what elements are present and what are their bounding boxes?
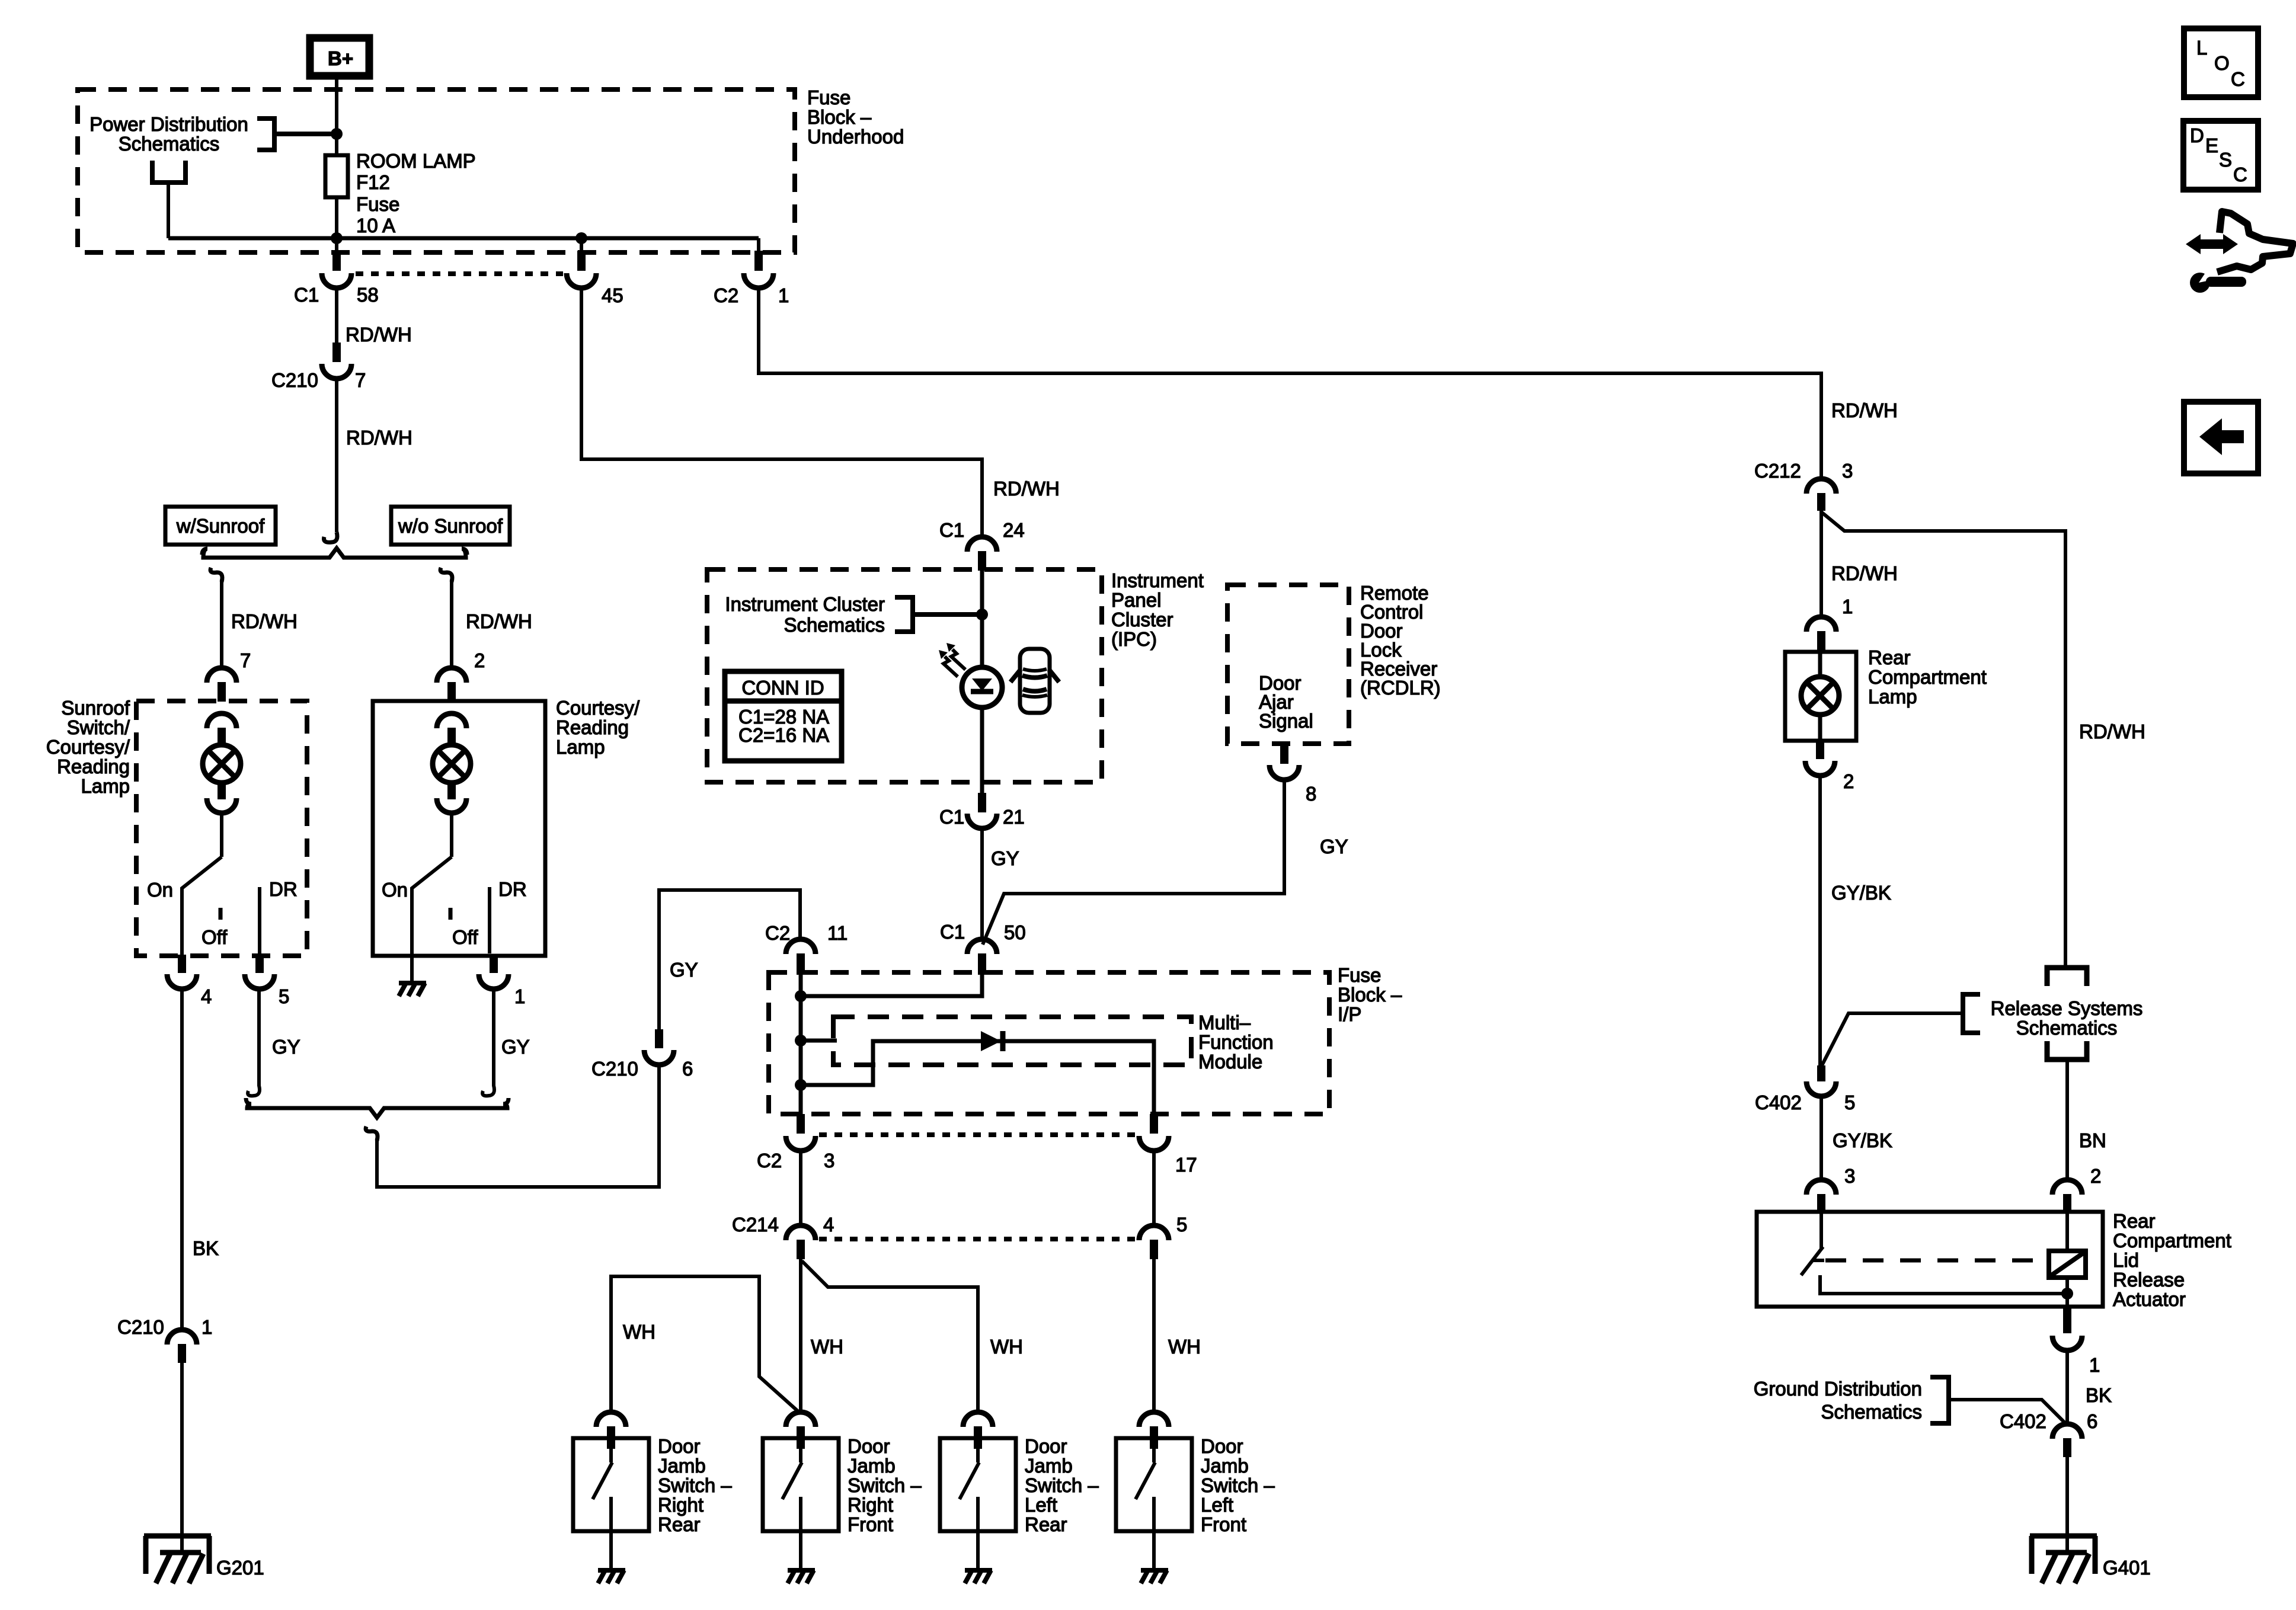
label 45 — [602, 284, 623, 306]
sunroof lamp bulb — [203, 745, 241, 783]
wire fuse to bus — [335, 197, 338, 238]
dotted connector row at fuse block bottom — [356, 271, 563, 276]
svg-text:C210: C210 — [591, 1058, 638, 1080]
wire release systems to actuator 2, BN — [2065, 1060, 2069, 1181]
car icon with open doors — [1011, 649, 1059, 713]
svg-text:RD/WH: RD/WH — [346, 324, 412, 345]
svg-text:3: 3 — [824, 1150, 834, 1172]
connector pin 45 — [567, 251, 596, 288]
svg-text:Rear: Rear — [1868, 646, 1911, 668]
squiggle below join brace — [366, 1126, 378, 1141]
label C214 4 — [732, 1214, 834, 1235]
wire LED to C1-21 — [980, 708, 984, 794]
wire to ground — [609, 1531, 613, 1570]
label Remote Control Door Lock Receiver (RCDLR) — [1360, 582, 1441, 699]
svg-text:(IPC): (IPC) — [1111, 628, 1157, 650]
option join brace — [246, 1098, 509, 1118]
svg-text:50: 50 — [1004, 921, 1026, 943]
svg-text:On: On — [382, 879, 408, 901]
svg-text:Right: Right — [658, 1494, 703, 1516]
svg-text:E: E — [2205, 135, 2218, 156]
courtesy/reading lamp solid box — [373, 701, 545, 956]
wire On to chassis ground — [410, 953, 414, 982]
svg-text:C1: C1 — [294, 284, 319, 306]
svg-text:O: O — [2214, 52, 2230, 74]
svg-text:8: 8 — [1306, 783, 1316, 805]
rear compartment lid release actuator box — [1757, 1212, 2103, 1307]
svg-text:RD/WH: RD/WH — [993, 478, 1060, 500]
connector C1 pin 24 — [967, 537, 997, 571]
wire B+ down to fuse — [335, 76, 338, 157]
wire bracket to LED feed — [913, 612, 982, 617]
svg-text:Fuse: Fuse — [1338, 964, 1381, 986]
svg-text:Off: Off — [452, 926, 478, 948]
svg-text:C402: C402 — [1755, 1092, 1802, 1113]
diode in multi-function module — [981, 1031, 1003, 1051]
svg-text:GY: GY — [670, 959, 698, 981]
svg-text:RD/WH: RD/WH — [466, 610, 532, 632]
wire coil through box — [2065, 1213, 2069, 1307]
release systems top bracket — [2047, 968, 2087, 986]
svg-text:Jamb: Jamb — [658, 1455, 706, 1477]
svg-text:Release Systems: Release Systems — [1991, 997, 2143, 1019]
rear compartment lamp box — [1785, 652, 1856, 741]
svg-text:3: 3 — [1842, 460, 1853, 482]
label Sunroof Switch/Courtesy/Reading Lamp — [46, 697, 130, 797]
junction dot — [976, 609, 988, 620]
svg-text:Door: Door — [1025, 1435, 1067, 1457]
wire C210-6 up to C2-11, GY — [659, 890, 800, 1030]
wire from bracket to B+ feed — [274, 132, 337, 136]
svg-text:B+: B+ — [328, 47, 353, 69]
chassis ground — [598, 1570, 625, 1583]
svg-text:Door: Door — [1201, 1435, 1243, 1457]
courtesy DR contact wire — [488, 887, 491, 953]
svg-text:C2: C2 — [765, 922, 790, 944]
wire lamp to switch — [220, 812, 223, 857]
wire to ground — [976, 1531, 980, 1570]
door jamb switch Left Rear box — [940, 1438, 1016, 1531]
connector 2 at actuator — [2052, 1180, 2082, 1213]
label DR — [269, 878, 298, 900]
wire w/o Sunroof branch down, RD/WH — [450, 580, 453, 669]
wire from U bracket down to bus — [167, 183, 170, 238]
svg-text:2: 2 — [474, 649, 485, 671]
courtesy lamp bottom terminal — [437, 782, 466, 813]
svg-text:Underhood: Underhood — [807, 126, 904, 148]
svg-text:RD/WH: RD/WH — [2079, 721, 2145, 742]
svg-text:Left: Left — [1201, 1494, 1233, 1516]
label WH — [811, 1336, 843, 1358]
wire link to C1-50 pin — [801, 975, 982, 996]
svg-text:Rear: Rear — [2113, 1210, 2156, 1232]
svg-text:DR: DR — [498, 878, 527, 900]
connector pin 8 below door ajar box — [1269, 745, 1299, 780]
svg-text:G201: G201 — [216, 1557, 264, 1579]
sunroof switch blade to On — [182, 857, 222, 956]
label C210 1 — [117, 1316, 212, 1338]
sunroof lamp bottom terminal — [207, 782, 236, 813]
label Door Jamb Switch Left Front — [1201, 1435, 1275, 1535]
svg-text:C210: C210 — [271, 369, 318, 391]
release systems bottom bracket — [2047, 1041, 2087, 1060]
svg-text:On: On — [147, 879, 173, 901]
svg-text:S: S — [2219, 149, 2232, 171]
bracket ground distribution — [1930, 1377, 1949, 1423]
connector pin 5 — [1139, 1225, 1169, 1259]
label 4 — [201, 985, 212, 1007]
svg-text:Switch –: Switch – — [1025, 1474, 1099, 1496]
label GY — [272, 1036, 300, 1058]
courtesy lamp top terminal — [437, 713, 466, 745]
label C212 3 — [1754, 460, 1853, 482]
sunroof lamp top terminal — [207, 713, 236, 745]
label C210 6 — [591, 1058, 693, 1080]
svg-text:3: 3 — [1844, 1165, 1855, 1187]
wire branch C212-3 to right RD/WH run — [1821, 512, 2065, 967]
remote control door lock receiver dashed box — [1227, 585, 1349, 744]
svg-text:2: 2 — [1843, 770, 1854, 792]
label ROOM LAMP F12 Fuse 10 A — [356, 150, 476, 236]
label RD/WH — [1831, 399, 1898, 421]
IPC LED indicator — [962, 667, 1002, 708]
svg-text:Actuator: Actuator — [2113, 1288, 2186, 1310]
option split squiggle at wire end — [324, 532, 337, 542]
svg-text:F12: F12 — [356, 171, 390, 193]
svg-text:58: 58 — [357, 284, 379, 306]
svg-text:C: C — [2233, 164, 2247, 185]
svg-text:Power Distribution: Power Distribution — [89, 113, 248, 135]
courtesy switch blade to On — [412, 857, 452, 953]
connector C402 pin 5 — [1806, 1065, 1836, 1096]
Off position tick — [449, 908, 453, 920]
junction dot bus at pin 45 — [575, 232, 587, 244]
label On — [382, 879, 408, 901]
wire stub into multi-function module — [801, 1039, 837, 1043]
svg-text:4: 4 — [201, 985, 212, 1007]
label GY — [991, 847, 1019, 869]
option split brace — [202, 548, 467, 558]
wire C2-1 to C212-3, long run right — [759, 287, 1821, 480]
svg-text:6: 6 — [682, 1058, 693, 1080]
svg-text:Instrument: Instrument — [1111, 569, 1204, 591]
svg-text:C212: C212 — [1754, 460, 1801, 482]
label RD/WH — [2079, 721, 2145, 742]
svg-text:Switch –: Switch – — [1201, 1474, 1275, 1496]
label Fuse Block Underhood — [807, 87, 904, 148]
svg-text:Cluster: Cluster — [1111, 609, 1173, 630]
dotted connector row C2 — [819, 1132, 1139, 1137]
svg-text:C214: C214 — [732, 1214, 779, 1235]
svg-text:Multi–: Multi– — [1198, 1012, 1251, 1033]
label 1 — [1842, 596, 1853, 617]
label C1 58 — [294, 284, 379, 306]
label C1 24 — [939, 519, 1025, 541]
svg-text:Right: Right — [848, 1494, 893, 1516]
label Release Systems Schematics — [1991, 997, 2143, 1039]
fuse F12 ROOM LAMP — [325, 155, 348, 197]
svg-text:GY/BK: GY/BK — [1833, 1129, 1892, 1151]
wire C402-6 to G401 — [2065, 1457, 2069, 1553]
connector 1 below actuator — [2052, 1307, 2082, 1350]
label RD/WH — [993, 478, 1060, 500]
sunroof switch/courtesy/reading lamp dashed box — [136, 701, 307, 956]
label G401 — [2103, 1557, 2151, 1579]
wire join brace to C210-6 — [377, 1067, 659, 1187]
label 17 — [1175, 1154, 1197, 1176]
label Fuse Block I/P — [1338, 964, 1402, 1025]
label WH — [990, 1336, 1023, 1358]
chassis ground under courtesy switch — [399, 983, 426, 996]
connector C402 pin 6 — [2052, 1424, 2082, 1457]
svg-text:Reading: Reading — [556, 716, 629, 738]
svg-text:1: 1 — [202, 1316, 212, 1338]
svg-text:11: 11 — [827, 922, 848, 944]
wire branch C214-4 to left rear jamb switch, WH — [802, 1261, 978, 1413]
svg-text:Courtesy/: Courtesy/ — [46, 736, 130, 758]
wire connector 1 down GY with squiggle — [482, 987, 494, 1096]
svg-text:(RCDLR): (RCDLR) — [1360, 677, 1441, 699]
wire release systems tap to C402-5 — [1821, 1013, 1963, 1067]
w/o Sunroof option box — [391, 507, 510, 545]
svg-text:Block –: Block – — [1338, 984, 1402, 1006]
svg-text:Rear: Rear — [658, 1513, 701, 1535]
svg-text:BK: BK — [193, 1237, 219, 1259]
svg-text:Lid: Lid — [2113, 1249, 2139, 1271]
label GY/BK — [1833, 1129, 1892, 1151]
svg-text:Switch/: Switch/ — [67, 716, 130, 738]
wire C212-3 down to rear lamp, RD/WH — [1819, 511, 1823, 618]
label 5 — [1176, 1214, 1187, 1235]
label 7 — [240, 649, 251, 671]
label BN — [2079, 1129, 2106, 1151]
svg-text:RD/WH: RD/WH — [231, 610, 298, 632]
svg-text:WH: WH — [1168, 1336, 1201, 1358]
svg-text:Courtesy/: Courtesy/ — [556, 697, 640, 719]
connector C210 pin 6 — [644, 1029, 674, 1065]
label Ground Distribution Schematics — [1754, 1378, 1922, 1423]
U bracket under Power Distribution Schematics — [152, 161, 186, 183]
door jamb switch Right Rear box — [573, 1438, 649, 1531]
label C402 6 — [2000, 1410, 2097, 1432]
connector at door jamb switch right front — [786, 1412, 816, 1449]
label C2 11 — [765, 922, 848, 944]
Off position tick — [219, 908, 223, 920]
label G201 — [216, 1557, 264, 1579]
wire 5 to left front jamb switch, WH — [1152, 1259, 1156, 1413]
label WH — [1168, 1336, 1201, 1358]
wire to diode riser — [801, 1041, 1154, 1134]
svg-text:GY: GY — [501, 1036, 530, 1058]
label 5 — [279, 985, 289, 1007]
svg-text:1: 1 — [778, 284, 789, 306]
svg-text:Ground Distribution: Ground Distribution — [1754, 1378, 1922, 1400]
svg-text:Schematics: Schematics — [119, 133, 220, 155]
svg-text:Sunroof: Sunroof — [61, 697, 130, 719]
label Instrument Panel Cluster (IPC) — [1111, 569, 1204, 650]
actuator switch — [1801, 1213, 2067, 1294]
wire ground distribution to C402-6 — [1949, 1400, 2066, 1424]
label C1 50 — [940, 921, 1026, 943]
svg-text:1: 1 — [514, 985, 525, 1007]
label C2 3 — [757, 1150, 834, 1172]
svg-text:Fuse: Fuse — [356, 193, 399, 215]
door jamb switch Left Front box — [1116, 1438, 1192, 1531]
svg-text:C2=16 NA: C2=16 NA — [738, 724, 829, 746]
wire connector 4 down BK — [180, 987, 184, 1331]
svg-text:L: L — [2196, 37, 2207, 59]
switch contacts — [782, 1449, 802, 1531]
svg-text:5: 5 — [1176, 1214, 1187, 1235]
svg-text:Signal: Signal — [1259, 710, 1313, 732]
label RD/WH — [346, 427, 412, 449]
svg-text:WH: WH — [811, 1336, 843, 1358]
label C1 21 — [939, 806, 1025, 828]
label Off — [452, 926, 478, 948]
label C2 1 — [714, 284, 789, 306]
junction dot bus at fuse — [331, 232, 343, 244]
ground G401 — [2030, 1536, 2097, 1583]
svg-text:Front: Front — [1201, 1513, 1246, 1535]
connector 5 below sunroof box — [245, 955, 274, 989]
wire 45 to C1-24 — [581, 287, 982, 538]
label Power Distribution Schematics — [89, 113, 248, 155]
wire lamp 2 down GY/BK — [1818, 774, 1822, 1068]
svg-text:G401: G401 — [2103, 1557, 2151, 1579]
connector C2 pin 11 — [786, 939, 816, 975]
label GY — [501, 1036, 530, 1058]
instrument panel cluster dashed box — [707, 569, 1102, 782]
CONN ID table — [725, 671, 842, 761]
switch contacts — [960, 1449, 979, 1531]
label C402 5 — [1755, 1092, 1855, 1113]
label BK — [2086, 1384, 2112, 1406]
wire w/Sunroof branch down, RD/WH — [220, 580, 223, 669]
svg-text:WH: WH — [990, 1336, 1023, 1358]
svg-text:GY: GY — [1320, 836, 1348, 857]
label Rear Compartment Lamp — [1868, 646, 1987, 708]
svg-text:CONN ID: CONN ID — [741, 677, 824, 699]
label Courtesy/Reading Lamp — [556, 697, 640, 758]
svg-text:Switch –: Switch – — [658, 1474, 732, 1496]
junction dot feed C1-50 — [795, 990, 807, 1002]
svg-text:Fuse: Fuse — [807, 87, 850, 108]
svg-text:RD/WH: RD/WH — [1831, 399, 1898, 421]
label Door Jamb Switch Right Rear — [658, 1435, 732, 1535]
label Door Ajar Signal — [1259, 672, 1313, 732]
bus wire inside fuse block — [168, 236, 759, 241]
label WH — [623, 1321, 655, 1343]
fuse block underhood dashed outline — [78, 89, 795, 252]
squiggle top of w/Sunroof branch — [210, 568, 222, 582]
back arrow reference box — [2184, 402, 2258, 473]
switch contacts — [1136, 1449, 1155, 1531]
svg-text:Schematics: Schematics — [784, 614, 885, 636]
B+ power symbol box — [310, 38, 369, 76]
svg-text:1: 1 — [2089, 1354, 2100, 1376]
label Instrument Cluster Schematics — [725, 593, 885, 636]
svg-text:Jamb: Jamb — [1201, 1455, 1249, 1477]
wire C210-1 to G201 — [180, 1363, 184, 1553]
svg-text:C1: C1 — [939, 806, 964, 828]
wire C2-3 to C214-4 — [799, 1150, 802, 1227]
label 1 — [2089, 1354, 2100, 1376]
svg-text:Lamp: Lamp — [1868, 686, 1917, 708]
svg-text:5: 5 — [1844, 1092, 1855, 1113]
connector C210 pin 1 — [167, 1330, 197, 1363]
svg-text:Compartment: Compartment — [2113, 1230, 2231, 1251]
svg-text:C2: C2 — [757, 1150, 782, 1172]
svg-text:Door: Door — [658, 1435, 701, 1457]
label w/o Sunroof — [398, 515, 503, 537]
wire 17 to 5 — [1152, 1150, 1156, 1227]
svg-text:17: 17 — [1175, 1154, 1197, 1176]
svg-text:Module: Module — [1198, 1051, 1262, 1073]
squiggle top of w/o Sunroof branch — [440, 568, 452, 582]
svg-text:45: 45 — [602, 284, 623, 306]
svg-text:C: C — [2231, 68, 2245, 90]
wire C1-58 to C210-7, RD/WH — [335, 287, 338, 344]
door jamb switch Right Front box — [763, 1438, 839, 1531]
svg-text:21: 21 — [1003, 806, 1025, 828]
svg-text:Panel: Panel — [1111, 589, 1161, 611]
svg-text:Rear: Rear — [1025, 1513, 1067, 1535]
wire C1-24 into IPC to LED — [980, 571, 984, 668]
label RD/WH — [466, 610, 532, 632]
connector C210 pin 7 — [322, 343, 351, 379]
svg-text:Function: Function — [1198, 1031, 1274, 1053]
label CONN ID — [741, 677, 824, 699]
label w/Sunroof — [176, 515, 265, 537]
svg-text:Left: Left — [1025, 1494, 1057, 1516]
wire lamp to switch — [450, 812, 453, 857]
label C1=28 NA C2=16 NA — [738, 706, 829, 746]
svg-text:GY/BK: GY/BK — [1831, 882, 1891, 904]
chassis ground — [1141, 1570, 1168, 1583]
label C210 7 — [271, 369, 366, 391]
connector 2 dome into courtesy lamp box — [437, 668, 466, 702]
label 8 — [1306, 783, 1316, 805]
wire C210-7 down to option split, RD/WH — [335, 377, 338, 532]
chassis ground — [788, 1570, 815, 1583]
label GY/BK — [1831, 882, 1891, 904]
svg-text:24: 24 — [1003, 519, 1025, 541]
connector C1 pin 58 — [322, 251, 351, 288]
bracket to Power Distribution Schematics — [257, 119, 274, 150]
label GY — [670, 959, 698, 981]
label Multi-Function Module — [1198, 1012, 1274, 1073]
label 2 — [1843, 770, 1854, 792]
svg-text:10 A: 10 A — [356, 215, 395, 236]
LED emission arrows — [939, 643, 965, 677]
svg-text:Reading: Reading — [57, 756, 130, 777]
label RD/WH — [346, 324, 412, 345]
connector 2 below rear lamp — [1805, 741, 1835, 776]
svg-text:RD/WH: RD/WH — [346, 427, 412, 449]
wire connector 5 down GY with squiggle — [248, 987, 260, 1096]
label 3 — [1844, 1165, 1855, 1187]
ground G201 — [144, 1536, 211, 1583]
junction dot feed module input — [795, 1035, 807, 1046]
wire C1-21 to C1-50, GY — [980, 827, 984, 941]
LOC reference box — [2184, 28, 2258, 97]
actuator solenoid coil — [2049, 1251, 2086, 1278]
release systems left bracket — [1963, 994, 1980, 1033]
connector C1 pin 50 — [967, 939, 997, 975]
dotted connector row C214 — [819, 1237, 1139, 1241]
svg-text:GY: GY — [991, 847, 1019, 869]
svg-text:7: 7 — [240, 649, 251, 671]
